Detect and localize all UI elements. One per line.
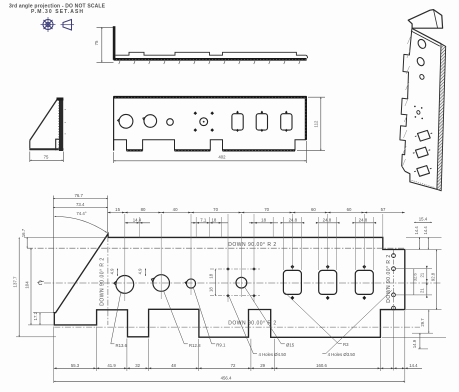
svg-text:24.8: 24.8 [359, 217, 368, 222]
feature verticals above/through part [125, 214, 383, 302]
svg-text:DOWN 90.00° R 2: DOWN 90.00° R 2 [386, 254, 392, 302]
leader R12.8 [164, 291, 188, 344]
svg-text:14.4: 14.4 [409, 363, 418, 368]
svg-text:74.4°: 74.4° [76, 211, 86, 216]
svg-text:15: 15 [115, 207, 120, 212]
square cutout 1 [418, 130, 431, 141]
left dim 17.2 [33, 312, 54, 314]
left edge [113, 96, 115, 150]
svg-text:75: 75 [44, 155, 49, 160]
right flange holes centreline [393, 250, 395, 309]
svg-text:15.4: 15.4 [419, 217, 428, 222]
D-cutout 3 [281, 111, 292, 132]
bottom edge [29, 148, 63, 150]
svg-text:55.3: 55.3 [71, 363, 80, 368]
centre hole phi15 [236, 277, 247, 288]
svg-text:16.7: 16.7 [21, 228, 26, 237]
projection symbol: front (truncated cone end view) [41, 17, 56, 32]
svg-text:32.6: 32.6 [413, 272, 418, 281]
overall dim 456.4 [54, 380, 405, 382]
hatch ticks below base [119, 61, 300, 64]
dim 112 line [320, 97, 322, 150]
hypotenuse [30, 98, 58, 140]
bottom profile [114, 140, 307, 151]
svg-text:DOWN 90.00° R 2: DOWN 90.00° R 2 [100, 257, 106, 305]
square cutout 3 [417, 166, 430, 177]
svg-text:29.7: 29.7 [420, 318, 425, 327]
svg-text:R3: R3 [343, 342, 349, 347]
ext line x=107.6 [107, 196, 109, 234]
hole 2 (keyed round) [153, 275, 170, 292]
svg-text:21: 21 [419, 272, 424, 277]
dim 75 line [30, 159, 64, 161]
dim 402 line [114, 160, 307, 162]
projection symbol: side (truncated cone side view) [61, 20, 75, 31]
chain labels [71, 363, 418, 368]
hole 1 (keyed round) [116, 276, 134, 294]
dim 29.7 (rot) [428, 310, 430, 333]
svg-text:24.8: 24.8 [323, 217, 332, 222]
svg-text:4 Holes Ø4.50: 4 Holes Ø4.50 [259, 352, 287, 357]
svg-text:18: 18 [209, 287, 214, 292]
bolt circle centre [416, 110, 420, 115]
dims 18/18 at hole pattern [210, 268, 260, 270]
svg-text:14.4: 14.4 [414, 226, 419, 235]
svg-text:112: 112 [313, 120, 318, 127]
small dim 4.9 at hole2 [145, 269, 147, 277]
bend line top (horizontal) [27, 247, 405, 249]
svg-text:C: C [38, 280, 43, 287]
svg-text:21: 21 [419, 288, 424, 293]
left flange strip with notch tabs [400, 28, 412, 171]
svg-text:18: 18 [209, 273, 214, 278]
bend line bottom (horizontal) [54, 326, 420, 328]
left lower edge [29, 140, 31, 148]
top row 1 dim line [108, 212, 405, 214]
base right end cap [306, 55, 308, 58]
right ext lines [382, 237, 446, 349]
left dim 16.7 [24, 236, 107, 238]
square cutout 2 [319, 270, 337, 294]
bend line left (vertical) [107, 236, 109, 325]
svg-text:DOWN 90.00° R 2: DOWN 90.00° R 2 [228, 242, 276, 248]
hole 2 (ellipse) [416, 56, 426, 67]
plate edge (vertical, thick with hatch) [59, 99, 63, 151]
base bottom edge (bend zone, thick hatched) [114, 58, 307, 61]
svg-text:456.4: 456.4 [221, 376, 232, 381]
svg-text:48: 48 [171, 363, 176, 368]
svg-text:32: 32 [135, 363, 140, 368]
hole B (keyed round) [144, 115, 157, 128]
leader R13.6 [111, 292, 121, 344]
bent triangular flange (top) [408, 10, 442, 29]
leader 4 Holes 3.50 [322, 290, 391, 353]
svg-text:R13.6: R13.6 [116, 343, 128, 348]
dim 74.4 deg arc [55, 216, 107, 232]
main centreline [44, 282, 441, 284]
plate bottom edge [405, 171, 437, 189]
dim 76.7 [53, 198, 107, 200]
svg-text:4.9: 4.9 [138, 268, 143, 274]
svg-text:70: 70 [213, 207, 218, 212]
dim 73.4 [53, 207, 107, 209]
D-cutout 1 [232, 111, 243, 132]
svg-text:70: 70 [264, 207, 269, 212]
row2 labels [133, 217, 368, 222]
svg-text:14.4: 14.4 [423, 226, 428, 235]
svg-text:40: 40 [173, 207, 178, 212]
chain ext verticals below [54, 311, 405, 383]
four corner marks (diamonds) [194, 111, 215, 132]
svg-text:24.8: 24.8 [289, 217, 298, 222]
hole 3 (keyed small) [186, 279, 195, 288]
square cutout 2 [416, 147, 429, 158]
svg-text:4 Holes Ø3.50: 4 Holes Ø3.50 [328, 352, 356, 357]
svg-text:76.7: 76.7 [74, 193, 83, 198]
svg-text:4.9: 4.9 [110, 268, 115, 274]
hole A (keyed round) [119, 114, 133, 128]
left dim 104 [28, 324, 54, 326]
centre hole with ring [200, 118, 208, 126]
hole pattern diamonds 4x [226, 267, 255, 297]
small dim 4.9 at hole1 [117, 269, 119, 277]
svg-text:137.7: 137.7 [13, 276, 18, 287]
bottom flange segments (thick hatched) [127, 149, 296, 151]
svg-text:P.M.30 SET.ASH: P.M.30 SET.ASH [31, 9, 83, 15]
svg-text:14.4: 14.4 [133, 217, 142, 222]
vertical flange (edge-on, thick) [113, 26, 116, 60]
dim 92.8 (rot) [436, 250, 438, 310]
left strip hatch [402, 36, 411, 167]
dim 112 extension lines [308, 96, 325, 98]
D-cutout 2 [256, 111, 267, 132]
svg-text:402: 402 [218, 155, 226, 160]
svg-text:104: 104 [25, 281, 30, 289]
hole 1 (ellipse) [417, 38, 428, 50]
leader R9.1 [193, 288, 215, 344]
square cutout 1 [283, 270, 301, 294]
svg-text:18: 18 [261, 217, 266, 222]
right flange 4 holes [392, 254, 396, 258]
svg-text:R12.8: R12.8 [189, 343, 201, 348]
hole C (small circle) [167, 119, 174, 126]
svg-text:72: 72 [231, 363, 236, 368]
svg-text:57: 57 [381, 207, 386, 212]
base top line with tab bumps [115, 52, 305, 55]
svg-text:60: 60 [347, 207, 352, 212]
row1 labels [115, 207, 386, 212]
bend ticks right side [65, 109, 67, 133]
svg-text:18: 18 [211, 217, 216, 222]
ext line x=53.3 [52, 196, 54, 314]
bolt circle dots [414, 106, 423, 120]
svg-text:92.8: 92.8 [431, 272, 436, 281]
chain boundary ticks [54, 367, 408, 369]
svg-text:73.4: 73.4 [76, 202, 85, 207]
square cutout 3 [355, 270, 373, 294]
dim 75 extension lines [97, 26, 114, 28]
left dim 137.7 [16, 336, 56, 338]
dim 14.9 (rot) [419, 333, 421, 349]
svg-text:60: 60 [311, 207, 316, 212]
svg-text:41.9: 41.9 [107, 363, 116, 368]
dims 14.4 / 14.4 top right (rot) [419, 237, 421, 249]
right edge (thick hatched) [305, 96, 307, 140]
leader phi15 [245, 287, 285, 344]
hole 3 (small) [419, 74, 425, 80]
svg-text:80: 80 [141, 207, 146, 212]
row1 boundary ticks [108, 212, 405, 214]
bottom flange (edge-on rectangle) [56, 139, 59, 150]
svg-text:75: 75 [94, 40, 99, 45]
svg-text:17.2: 17.2 [33, 311, 38, 320]
dims 21 / 32.6 / 21 right (rot) [426, 269, 428, 295]
right edge thickness band (hatched) [437, 44, 446, 191]
svg-text:14.9: 14.9 [412, 339, 417, 348]
svg-text:Ø15: Ø15 [286, 342, 295, 347]
dim 75 line [101, 27, 103, 62]
dim 75 extension lines [29, 152, 31, 163]
svg-text:R9.1: R9.1 [216, 342, 226, 347]
svg-text:29: 29 [260, 363, 265, 368]
row2 boundary ticks [125, 222, 376, 224]
plate top bend edge (double line) [412, 28, 441, 43]
outline [54, 234, 405, 337]
leader R3 [285, 293, 342, 344]
svg-text:160.6: 160.6 [316, 363, 327, 368]
leader 4 Holes 4.50 [229, 297, 257, 354]
top cap [57, 98, 64, 101]
chain dim line [54, 367, 422, 369]
dim 402 extension lines [113, 152, 115, 163]
svg-text:7.1: 7.1 [200, 217, 207, 222]
top edge (bend zone, thick hatched) [114, 96, 307, 99]
top row 2 dim segments [125, 222, 373, 224]
